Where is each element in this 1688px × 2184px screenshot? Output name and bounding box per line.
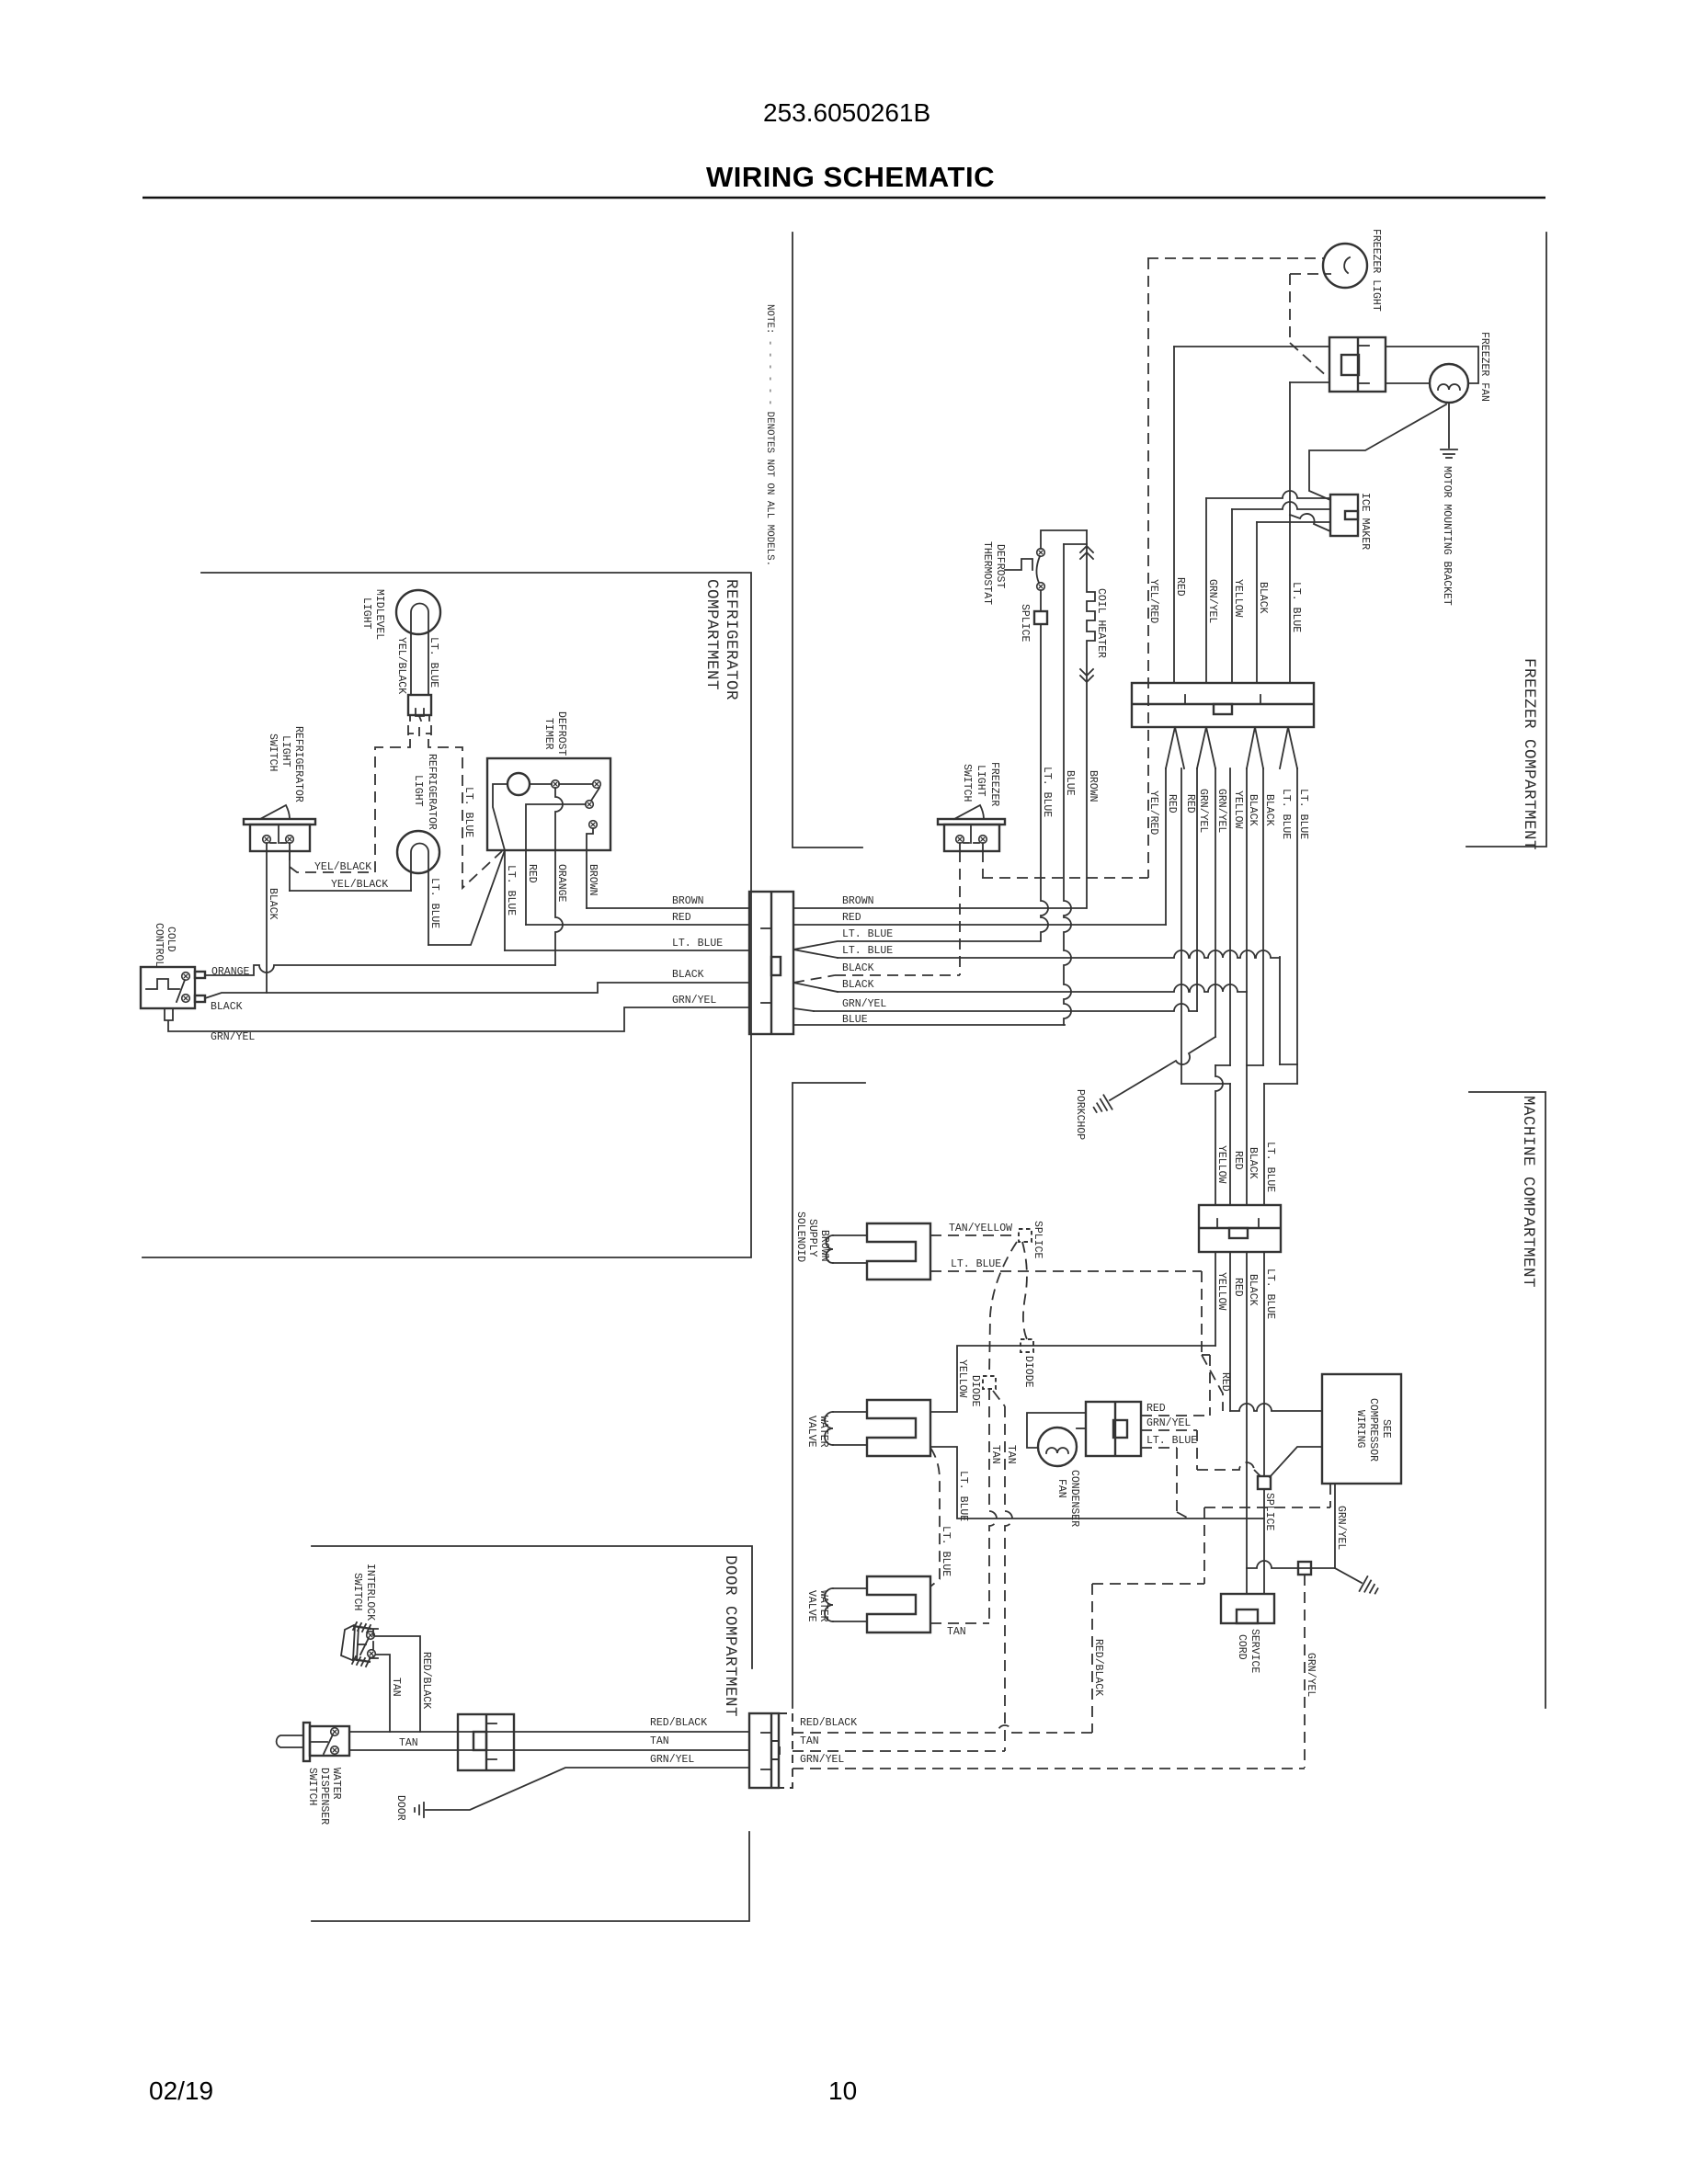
svg-text:LT. BLUE: LT. BLUE — [842, 928, 893, 940]
svg-text:BROWN: BROWN — [672, 895, 704, 907]
svg-text:LT. BLUE: LT. BLUE — [940, 1526, 952, 1576]
freezer light switch — [938, 819, 1005, 825]
svg-text:ORANGE: ORANGE — [211, 966, 250, 978]
title rule — [143, 197, 1545, 199]
svg-text:LIGHT: LIGHT — [975, 765, 987, 797]
wire grn/yel2 vertical — [1215, 768, 1216, 1037]
wire yellow mid vertical — [1229, 768, 1231, 1065]
wire yel/black solid — [289, 851, 291, 891]
wire thermostat to splice — [1040, 590, 1042, 611]
svg-text:LIGHT: LIGHT — [412, 775, 424, 807]
svg-text:BLACK: BLACK — [1247, 1274, 1259, 1306]
svg-text:GRN/YEL: GRN/YEL — [1146, 1417, 1191, 1429]
wire tan1 dashed — [989, 1389, 997, 1623]
svg-text:ORANGE: ORANGE — [555, 864, 567, 903]
svg-text:COMPARTMENT: COMPARTMENT — [702, 579, 721, 690]
wire grn/yel dashed down — [1304, 1575, 1306, 1768]
wire ltblue2 vertical — [1296, 768, 1298, 1084]
wire yel/black dashed — [290, 739, 410, 872]
water valve 2 connector — [867, 1576, 930, 1632]
svg-text:TAN: TAN — [390, 1678, 402, 1697]
wire grn/yel dashed door — [793, 1768, 1305, 1769]
svg-text:RED: RED — [1174, 577, 1186, 597]
svg-text:SUPPLY: SUPPLY — [806, 1219, 818, 1257]
svg-text:REFRIGERATOR: REFRIGERATOR — [426, 754, 438, 830]
svg-text:LT. BLUE: LT. BLUE — [505, 865, 517, 916]
svg-text:YELLOW: YELLOW — [1215, 1272, 1227, 1311]
svg-text:LT. BLUE: LT. BLUE — [1290, 582, 1302, 632]
svg-text:GRN/YEL: GRN/YEL — [800, 1754, 844, 1766]
splice coil — [1034, 611, 1047, 624]
svg-text:LT. BLUE: LT. BLUE — [672, 938, 723, 950]
water valve 1 coil — [825, 1412, 833, 1445]
jog black — [1247, 1064, 1263, 1066]
wire tan2 dashed — [993, 1391, 1005, 1406]
wire red/black interlock — [375, 1636, 420, 1732]
wire red condenser dashed — [1141, 1415, 1210, 1416]
svg-text:DIODE: DIODE — [1022, 1356, 1034, 1388]
wire lt blue right 1 — [793, 941, 1040, 950]
needle black — [1247, 727, 1263, 768]
wire black to ice maker — [1257, 521, 1330, 523]
door mid connector — [458, 1714, 514, 1770]
defrost timer motor — [508, 773, 530, 795]
door compartment border bottom — [312, 1832, 749, 1921]
wire red up needle — [1165, 768, 1167, 925]
svg-text:BROWN: BROWN — [1087, 770, 1099, 802]
svg-text:ICE MAKER: ICE MAKER — [1359, 493, 1371, 550]
wire switch dashed right — [982, 851, 984, 878]
svg-text:CONDENSER: CONDENSER — [1068, 1470, 1080, 1527]
wire lt blue splice down — [1263, 1489, 1265, 1594]
svg-text:RED/BLACK: RED/BLACK — [800, 1717, 857, 1729]
wire lt blue left — [505, 950, 749, 951]
svg-text:LT. BLUE: LT. BLUE — [1280, 789, 1292, 839]
svg-text:YEL/BLACK: YEL/BLACK — [331, 879, 388, 891]
machine compartment border — [1469, 1092, 1545, 1708]
svg-text:BLUE: BLUE — [842, 1014, 868, 1026]
needle red — [1166, 727, 1184, 768]
svg-text:SWITCH: SWITCH — [961, 764, 973, 802]
svg-text:253.6050261B: 253.6050261B — [763, 98, 930, 127]
wire lt blue timer — [504, 850, 506, 950]
svg-text:TAN: TAN — [650, 1735, 669, 1747]
svg-text:GRN/YEL: GRN/YEL — [1197, 789, 1209, 833]
refrigerator light switch — [244, 819, 315, 825]
svg-text:WATER: WATER — [330, 1768, 342, 1800]
svg-text:RED: RED — [526, 864, 538, 883]
svg-text:FREEZER LIGHT: FREEZER LIGHT — [1370, 229, 1382, 312]
defrost timer wiring — [493, 784, 508, 850]
wire orange timer — [555, 788, 563, 965]
svg-text:GRN/YEL: GRN/YEL — [1305, 1653, 1317, 1697]
svg-text:SWITCH: SWITCH — [267, 734, 279, 771]
wire black2 vertical — [1262, 768, 1264, 1065]
wire splice to diode1 — [1022, 1242, 1027, 1339]
wire black right — [793, 983, 838, 992]
wire black cold control — [205, 983, 749, 998]
wire black1 vertical — [1246, 768, 1248, 1205]
svg-text:TIMER: TIMER — [542, 718, 554, 750]
wire red vertical fz — [1173, 347, 1175, 682]
brown supply solenoid coil — [827, 1235, 834, 1263]
wire grn/yel to ice maker — [1206, 491, 1330, 498]
svg-text:DIODE: DIODE — [969, 1375, 981, 1407]
wire grn/yel compressor — [1334, 1484, 1336, 1568]
needle lt blue — [1280, 727, 1297, 768]
svg-text:BLACK: BLACK — [211, 1001, 243, 1013]
wire motor to bracket — [1448, 403, 1450, 448]
defrost timer box — [487, 758, 610, 850]
svg-text:YELLOW: YELLOW — [956, 1359, 968, 1398]
svg-text:BLACK: BLACK — [842, 979, 874, 991]
svg-text:LT. BLUE: LT. BLUE — [957, 1471, 969, 1521]
wire lt blue solenoid dashed — [930, 1270, 1202, 1272]
svg-text:DEFROST: DEFROST — [994, 544, 1006, 588]
wire tan interlock — [376, 1655, 390, 1732]
door connector — [749, 1713, 779, 1788]
svg-text:RED: RED — [842, 912, 861, 924]
wire brown left — [587, 907, 749, 909]
wire lt blue dashed — [428, 739, 502, 888]
svg-text:BROWN: BROWN — [818, 1230, 830, 1262]
svg-text:LT. BLUE: LT. BLUE — [842, 945, 893, 957]
wire orange cold control — [205, 965, 555, 975]
svg-text:GRN/YEL: GRN/YEL — [650, 1754, 694, 1766]
defrost thermostat — [1005, 559, 1032, 570]
svg-text:SPLICE: SPLICE — [1032, 1221, 1044, 1259]
svg-text:RED/BLACK: RED/BLACK — [420, 1652, 432, 1709]
freezer fan connector — [1329, 337, 1386, 392]
wire red/black dashed door — [793, 1725, 1092, 1733]
svg-text:SOLENOID: SOLENOID — [794, 1211, 806, 1262]
svg-text:WIRING SCHEMATIC: WIRING SCHEMATIC — [706, 161, 995, 193]
svg-text:INTERLOCK: INTERLOCK — [364, 1564, 376, 1621]
svg-text:YEL/RED: YEL/RED — [1147, 791, 1159, 835]
wire red right — [793, 924, 1166, 926]
wire red to freezer fan — [1174, 346, 1329, 347]
svg-text:LT. BLUE: LT. BLUE — [428, 637, 439, 688]
wire brown right — [793, 907, 1086, 909]
splice lt blue — [1258, 1476, 1271, 1489]
svg-text:FREEZER COMPARTMENT: FREEZER COMPARTMENT — [1520, 658, 1538, 850]
service cord — [1221, 1594, 1274, 1623]
water valve 2 coil — [825, 1588, 833, 1621]
svg-text:BROWN: BROWN — [842, 895, 874, 907]
svg-text:RED: RED — [1232, 1151, 1244, 1170]
svg-text:WATER: WATER — [817, 1416, 829, 1448]
refrigerator light — [397, 831, 439, 873]
svg-text:FAN: FAN — [1055, 1479, 1067, 1498]
svg-text:RED/BLACK: RED/BLACK — [650, 1717, 707, 1729]
svg-text:TAN: TAN — [989, 1445, 1001, 1464]
jog ltblue1 — [1280, 1064, 1297, 1065]
wire red below mc — [1229, 1252, 1231, 1411]
motor mounting bracket ground — [1441, 449, 1457, 450]
wire splice to diode2 — [989, 1242, 1017, 1376]
wire black vertical fz — [1256, 522, 1258, 682]
svg-text:SEE: SEE — [1380, 1419, 1392, 1439]
wire grn/yel door — [426, 1768, 749, 1810]
svg-text:VALVE: VALVE — [805, 1590, 817, 1622]
wire red/black dashed vertical — [1091, 1584, 1093, 1733]
wire fan to ice maker — [1309, 404, 1446, 500]
svg-text:BLACK: BLACK — [1263, 794, 1275, 826]
svg-text:BLACK: BLACK — [842, 962, 874, 974]
svg-text:TAN/YELLOW: TAN/YELLOW — [949, 1223, 1012, 1234]
refrigerator compartment border — [143, 573, 751, 1257]
svg-text:CONTROL: CONTROL — [153, 923, 165, 967]
wire grn/yel condenser dashed — [1141, 1429, 1197, 1431]
svg-text:YELLOW: YELLOW — [1232, 579, 1244, 618]
svg-text:PORKCHOP: PORKCHOP — [1074, 1089, 1086, 1140]
wire tan valve2 dashed — [930, 1622, 989, 1624]
svg-text:TAN: TAN — [399, 1737, 418, 1749]
svg-text:TAN: TAN — [947, 1626, 966, 1638]
midlevel light connector — [408, 695, 431, 715]
svg-text:LT. BLUE: LT. BLUE — [951, 1258, 1001, 1270]
svg-text:GRN/YEL: GRN/YEL — [1215, 789, 1227, 833]
door compartment border top — [312, 1546, 752, 1668]
svg-text:DISPENSER: DISPENSER — [318, 1768, 330, 1825]
svg-text:WATER: WATER — [817, 1590, 829, 1622]
condenser fan connector — [1086, 1402, 1141, 1456]
brown supply solenoid connector — [867, 1223, 930, 1280]
svg-text:RED: RED — [1232, 1278, 1244, 1297]
jog ltblue2 — [1264, 1083, 1297, 1085]
svg-text:LT. BLUE: LT. BLUE — [1146, 1435, 1197, 1447]
center divider wire — [793, 233, 865, 1708]
jog red — [1181, 1083, 1230, 1085]
svg-text:02/19: 02/19 — [149, 2076, 213, 2105]
ice maker connector — [1330, 495, 1358, 536]
svg-text:LT. BLUE: LT. BLUE — [428, 878, 440, 928]
wire red timer — [526, 804, 586, 925]
svg-text:DEFROST: DEFROST — [555, 711, 567, 756]
freezer compartment border — [1466, 233, 1546, 847]
svg-text:RED: RED — [672, 912, 691, 924]
porkchop wire — [1110, 1037, 1215, 1100]
refrigerator connector — [749, 892, 793, 1034]
water dispenser switch — [277, 1735, 303, 1747]
wire freezer fan to motor — [1386, 382, 1430, 384]
wire switch dashed left — [959, 851, 961, 975]
svg-text:TAN: TAN — [1005, 1445, 1017, 1464]
wire blue to coil top — [1064, 543, 1087, 545]
cold control tabs — [195, 972, 205, 978]
svg-text:RED: RED — [1184, 794, 1196, 813]
svg-text:BLACK: BLACK — [672, 969, 704, 981]
svg-text:BLACK: BLACK — [1257, 582, 1269, 614]
svg-text:WIRING: WIRING — [1354, 1410, 1366, 1449]
wire lt blue valve2 dashed — [930, 1448, 940, 1587]
svg-text:LT. BLUE: LT. BLUE — [462, 787, 474, 837]
svg-text:NOTE: - - - - - - DENOTES NOT: NOTE: - - - - - - DENOTES NOT ON ALL MOD… — [764, 304, 775, 566]
svg-text:BROWN: BROWN — [587, 864, 599, 896]
wire lt blue diagonal to ice maker — [1290, 514, 1330, 531]
wire yellow to ice maker — [1232, 502, 1330, 509]
svg-text:FREEZER FAN: FREEZER FAN — [1478, 332, 1490, 402]
svg-text:RED/BLACK: RED/BLACK — [1092, 1639, 1104, 1696]
wire black switch — [266, 851, 268, 993]
wire tan dashed door — [793, 1750, 1005, 1752]
wire brown timer — [587, 828, 593, 908]
svg-text:SWITCH: SWITCH — [351, 1573, 363, 1610]
see compressor wiring box — [1322, 1374, 1401, 1484]
wire black below mc — [1246, 1252, 1248, 1594]
interlock switch — [341, 1625, 354, 1660]
svg-text:YELLOW: YELLOW — [1232, 791, 1244, 829]
svg-text:CORD: CORD — [1236, 1634, 1248, 1660]
svg-text:COIL HEATER: COIL HEATER — [1095, 588, 1107, 658]
splice tan/yellow — [1019, 1229, 1032, 1242]
splice grn/yel — [1298, 1562, 1311, 1575]
condenser fan wires — [1027, 1413, 1086, 1448]
svg-text:REFRIGERATOR: REFRIGERATOR — [292, 726, 304, 802]
wire lt blue vertical fz — [1289, 382, 1291, 682]
wire lt blue to compressor — [1270, 1447, 1322, 1477]
svg-text:MIDLEVEL: MIDLEVEL — [373, 589, 385, 640]
wire blue right — [793, 1024, 1065, 1026]
wire yel/red dashed to switch — [982, 877, 1148, 879]
wire freezer fan loop top — [1386, 347, 1478, 383]
wire red left — [526, 924, 749, 926]
svg-text:GRN/YEL: GRN/YEL — [1335, 1506, 1347, 1550]
svg-text:VALVE: VALVE — [805, 1416, 817, 1448]
svg-text:SPLICE: SPLICE — [1263, 1493, 1275, 1531]
wire lt blue ref light — [428, 850, 505, 945]
condenser fan — [1038, 1428, 1077, 1466]
wire thermostat to coil — [1041, 530, 1087, 549]
svg-text:GRN/YEL: GRN/YEL — [842, 998, 886, 1010]
svg-text:DOOR: DOOR — [394, 1795, 406, 1821]
svg-text:THERMOSTAT: THERMOSTAT — [981, 541, 993, 605]
midlevel connector dashed half — [408, 725, 431, 736]
wire yel/red dashed top — [1147, 257, 1325, 259]
wire lt blue right 2 — [793, 950, 838, 958]
svg-text:BLACK: BLACK — [1247, 794, 1259, 826]
wire yellow vertical — [1231, 509, 1233, 682]
wire yellow valve — [930, 1346, 1215, 1412]
wire red2 vertical — [1180, 768, 1182, 1084]
door ground — [423, 1803, 425, 1817]
wire yel/red dashed vertical — [1147, 258, 1149, 878]
water valve 1 connector — [867, 1400, 930, 1456]
svg-text:RED: RED — [1166, 794, 1178, 813]
svg-text:YEL/RED: YEL/RED — [1147, 579, 1159, 623]
wire grn/yel1 vertical — [1196, 768, 1198, 1011]
wire lt blue condenser dashed — [1141, 1447, 1177, 1449]
svg-text:GRN/YEL: GRN/YEL — [672, 995, 716, 1007]
svg-text:10: 10 — [828, 2076, 857, 2105]
svg-text:BLUE: BLUE — [1064, 770, 1076, 796]
svg-text:LT. BLUE: LT. BLUE — [1264, 1268, 1276, 1319]
svg-text:MACHINE COMPARTMENT: MACHINE COMPARTMENT — [1519, 1096, 1537, 1288]
svg-text:YEL/BLACK: YEL/BLACK — [395, 637, 407, 694]
svg-text:REFRIGERATOR: REFRIGERATOR — [722, 579, 740, 700]
svg-text:LIGHT: LIGHT — [360, 597, 372, 630]
wire blue vertical — [1064, 544, 1071, 1025]
svg-text:DOOR COMPARTMENT: DOOR COMPARTMENT — [721, 1555, 739, 1717]
svg-text:COLD: COLD — [165, 927, 177, 952]
wire ltblue1 vertical — [1279, 957, 1281, 1064]
wire lt blue valve — [930, 1447, 1264, 1519]
wire grn/yel service — [1247, 1561, 1335, 1568]
freezer connector — [1132, 683, 1314, 727]
cold control box — [141, 967, 195, 1008]
coil heater — [1087, 530, 1095, 908]
svg-text:YEL/BLACK: YEL/BLACK — [314, 861, 371, 873]
svg-text:FREEZER: FREEZER — [988, 762, 1000, 806]
wire yellow below mc — [1215, 1252, 1216, 1346]
svg-text:TAN: TAN — [800, 1735, 819, 1747]
svg-text:LIGHT: LIGHT — [279, 735, 291, 768]
wire red/black dashed route — [1092, 1583, 1204, 1585]
svg-text:GRN/YEL: GRN/YEL — [1206, 579, 1218, 623]
svg-text:BLACK: BLACK — [1247, 1147, 1259, 1179]
svg-text:COMPRESSOR: COMPRESSOR — [1367, 1398, 1379, 1462]
needle grn/yel — [1197, 727, 1215, 768]
diode 2 — [983, 1376, 996, 1389]
svg-text:LT. BLUE: LT. BLUE — [1041, 767, 1053, 817]
wire grn/yel right — [793, 1008, 814, 1011]
wire tan door — [349, 1749, 749, 1751]
wire lt blue below mc — [1263, 1252, 1265, 1476]
jog yellow — [1215, 1064, 1230, 1066]
wire grn/yel vertical — [1205, 498, 1207, 682]
midlevel light — [396, 590, 440, 634]
freezer light — [1323, 244, 1367, 288]
svg-text:SERVICE: SERVICE — [1249, 1629, 1260, 1673]
diode 1 — [1021, 1339, 1033, 1352]
svg-text:LT. BLUE: LT. BLUE — [1297, 789, 1309, 839]
svg-text:GRN/YEL: GRN/YEL — [211, 1031, 255, 1043]
porkchop ground — [1103, 1095, 1112, 1109]
svg-text:MOTOR MOUNTING BRACKET: MOTOR MOUNTING BRACKET — [1441, 466, 1453, 606]
machine connector — [1199, 1205, 1281, 1252]
wire red/black door — [349, 1731, 749, 1733]
svg-text:SWITCH: SWITCH — [306, 1768, 318, 1805]
wire black dashed right — [793, 975, 835, 983]
svg-text:BLACK: BLACK — [267, 888, 279, 920]
freezer fan motor — [1430, 364, 1468, 403]
svg-text:LT. BLUE: LT. BLUE — [1264, 1142, 1276, 1192]
wire lt blue splice down — [1041, 624, 1048, 941]
wire tan/yellow dashed — [930, 1234, 1014, 1236]
wire freezer light dashed 2 — [1290, 273, 1331, 275]
wire grn/yel cold control — [165, 1007, 749, 1031]
wire ground service — [1335, 1568, 1362, 1583]
svg-text:SPLICE: SPLICE — [1019, 604, 1031, 643]
svg-text:YELLOW: YELLOW — [1215, 1145, 1227, 1184]
svg-text:RED: RED — [1146, 1403, 1166, 1415]
